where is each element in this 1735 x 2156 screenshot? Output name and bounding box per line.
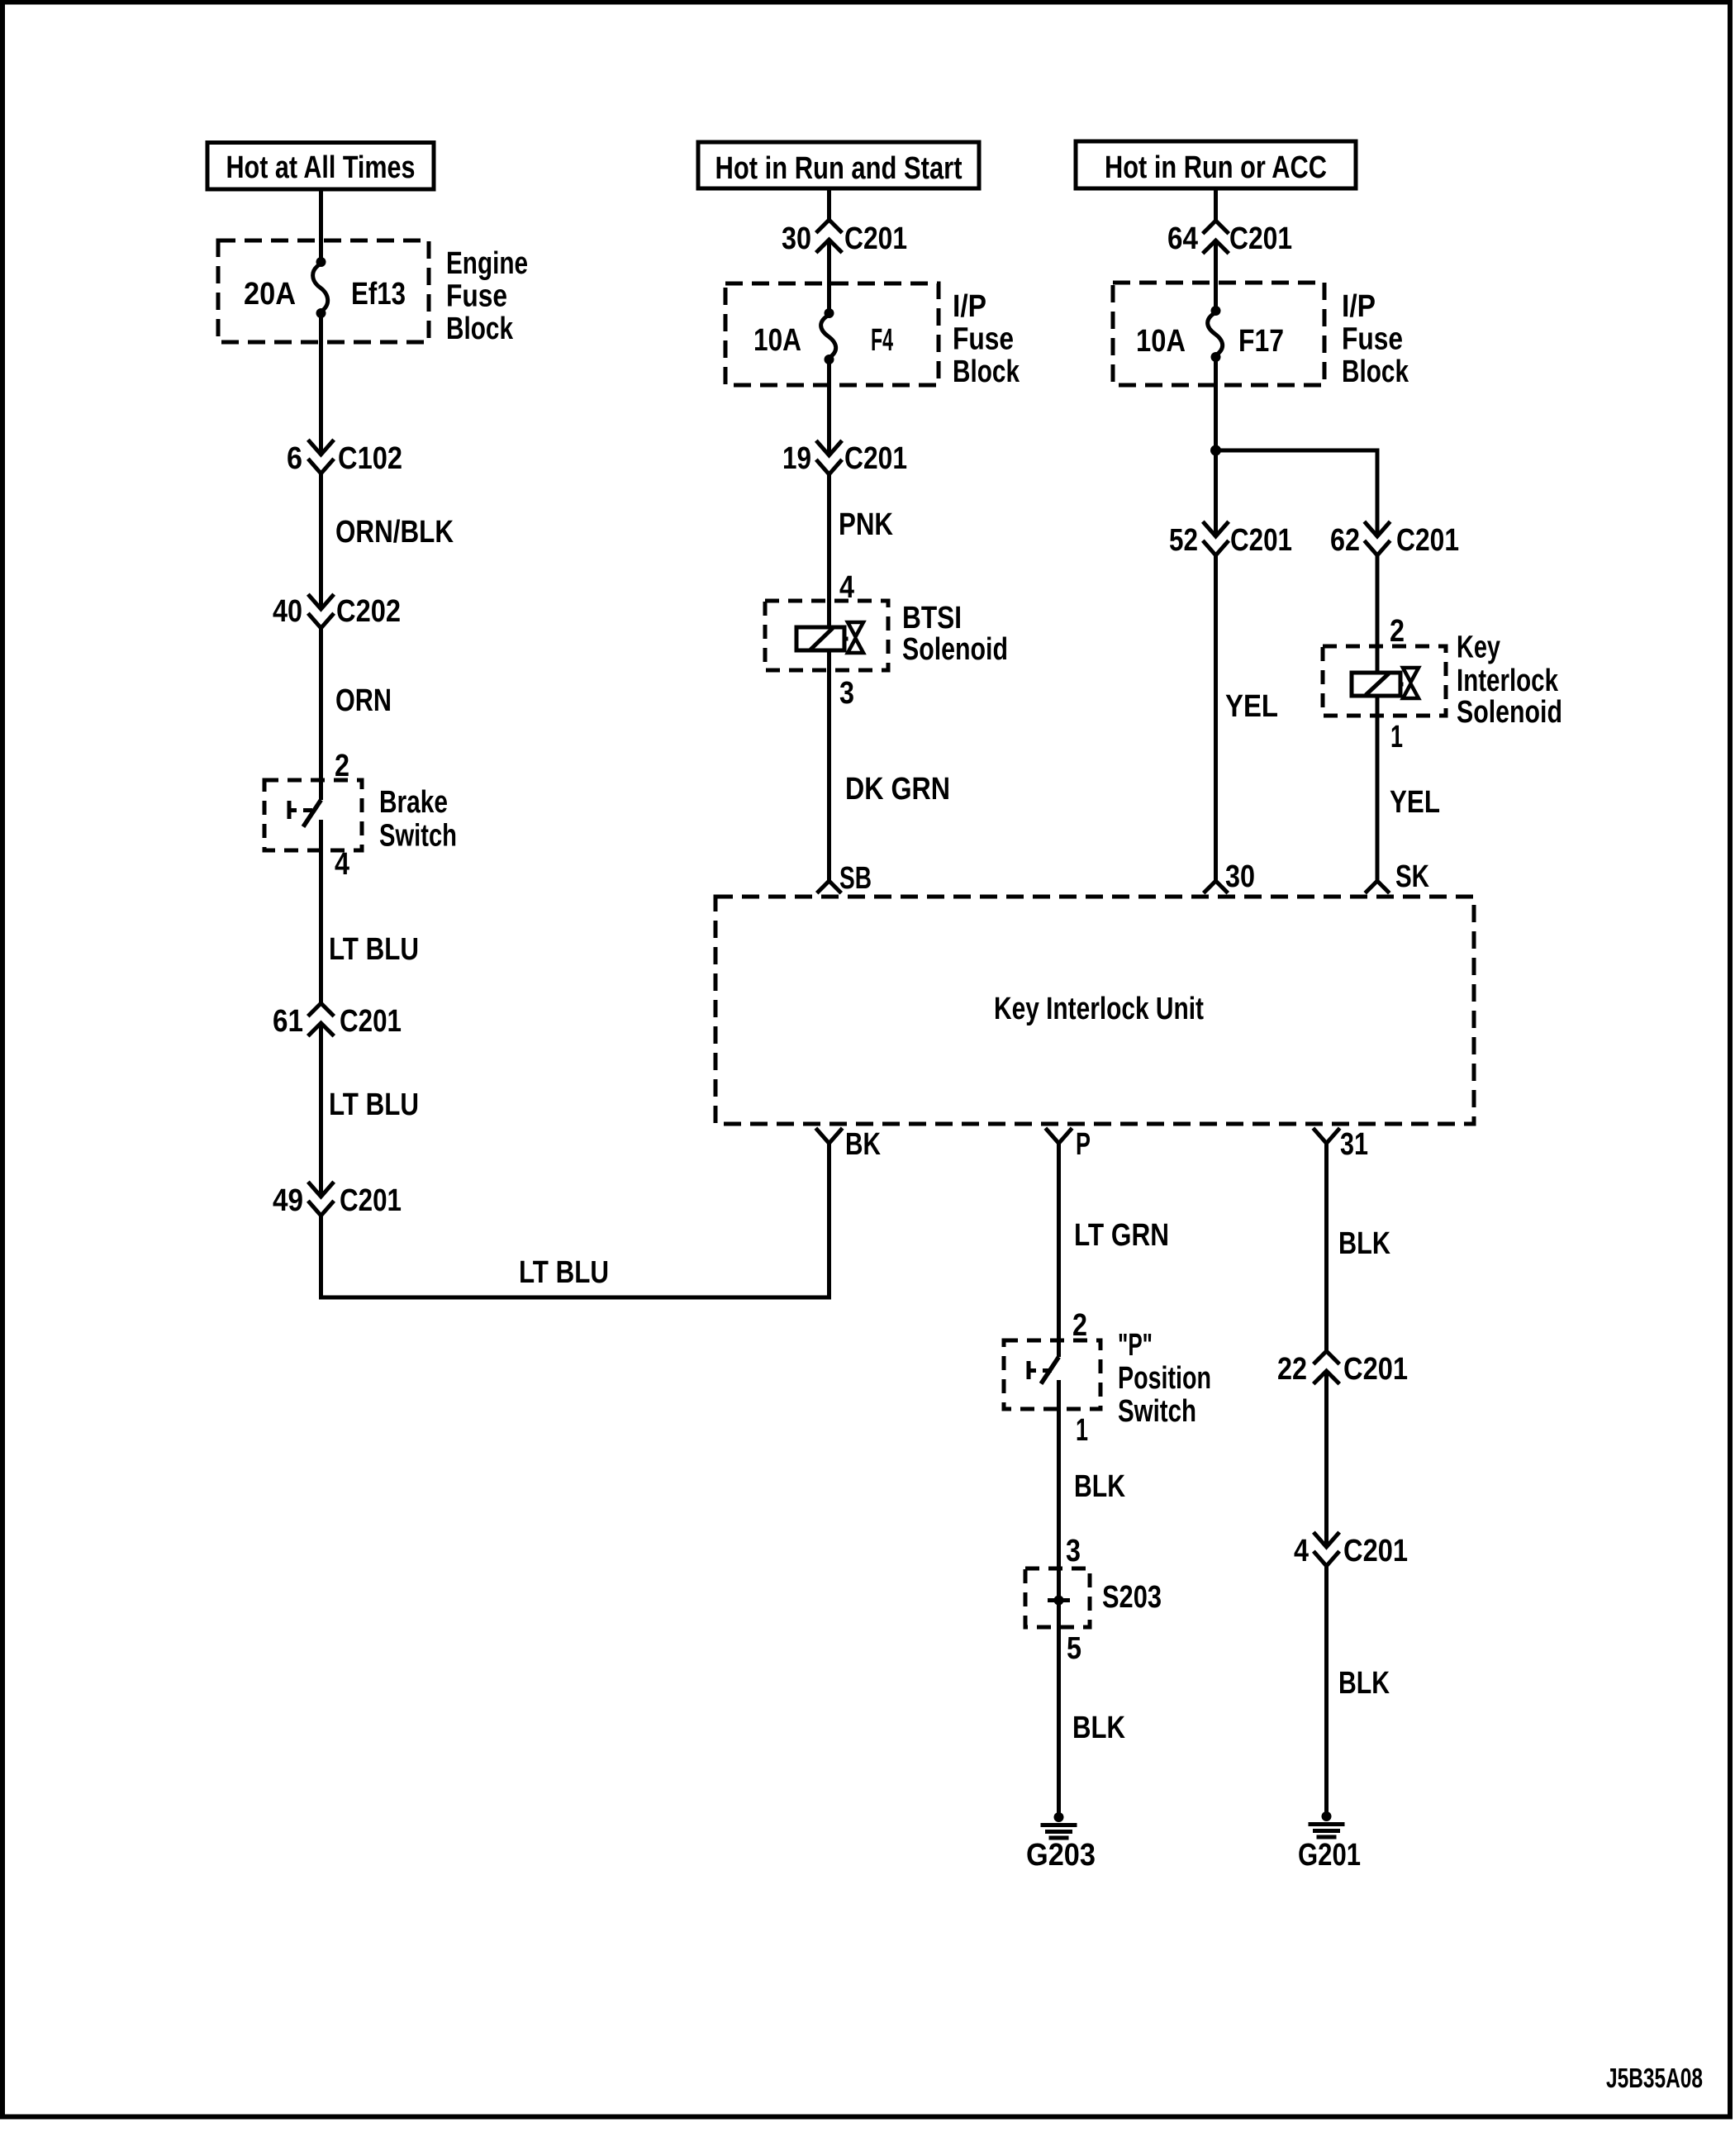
svg-text:4: 4 xyxy=(335,847,349,882)
wire LT BLU segment 1 xyxy=(319,820,323,1003)
svg-text:LT GRN: LT GRN xyxy=(1074,1218,1169,1253)
svg-text:62: 62 xyxy=(1330,523,1360,558)
wire LT GRN segment xyxy=(1057,1152,1061,1357)
svg-text:64: 64 xyxy=(1167,221,1198,256)
wire LT BLU run to BK xyxy=(321,1152,829,1297)
wire: header to fuse Ef13 xyxy=(319,189,323,264)
Brake Switch dashed box xyxy=(264,780,362,850)
svg-text:BLK: BLK xyxy=(1338,1666,1390,1701)
P position switch contacts xyxy=(1041,1357,1059,1384)
svg-text:SK: SK xyxy=(1395,859,1429,894)
svg-text:20A: 20A xyxy=(244,277,296,312)
Key Interlock Unit dashed box xyxy=(715,897,1474,1124)
svg-text:Hot at All Times: Hot at All Times xyxy=(226,150,416,185)
svg-text:C202: C202 xyxy=(336,594,401,629)
svg-text:40: 40 xyxy=(273,594,302,629)
svg-text:LT BLU: LT BLU xyxy=(519,1255,609,1290)
connector 64 C201 xyxy=(1205,221,1228,232)
svg-text:BK: BK xyxy=(845,1127,881,1162)
svg-text:3: 3 xyxy=(1066,1534,1081,1568)
svg-text:ORN: ORN xyxy=(335,683,392,718)
wire connector 64 to fuse F17 xyxy=(1214,240,1218,312)
svg-text:C201: C201 xyxy=(844,221,907,256)
svg-text:YEL: YEL xyxy=(1225,689,1278,724)
svg-text:52: 52 xyxy=(1169,523,1198,558)
header box: Hot at All Times xyxy=(207,143,434,190)
wire 62 to key solenoid xyxy=(1376,555,1380,673)
svg-text:BTSI: BTSI xyxy=(902,601,962,635)
I/P Fuse Block dashed box (F17) xyxy=(1113,283,1324,385)
svg-text:C201: C201 xyxy=(844,441,907,476)
BTSI solenoid coil and valve xyxy=(796,627,844,650)
svg-text:Block: Block xyxy=(1342,355,1409,389)
connector 52 C201 xyxy=(1205,523,1228,536)
ground G201 symbol xyxy=(1322,1811,1332,1821)
svg-text:3: 3 xyxy=(839,676,854,711)
svg-text:C201: C201 xyxy=(1343,1352,1408,1387)
svg-text:BLK: BLK xyxy=(1338,1226,1390,1261)
wire header to connector 64 xyxy=(1214,188,1218,221)
svg-text:DK GRN: DK GRN xyxy=(845,772,950,807)
svg-text:Block: Block xyxy=(446,312,514,346)
svg-text:YEL: YEL xyxy=(1390,785,1440,820)
svg-text:Key Interlock Unit: Key Interlock Unit xyxy=(994,992,1204,1026)
fuse Ef13 20A xyxy=(316,257,326,267)
svg-text:22: 22 xyxy=(1277,1352,1307,1387)
Key Interlock Solenoid dashed box xyxy=(1323,646,1446,716)
svg-text:30: 30 xyxy=(782,221,811,256)
svg-text:49: 49 xyxy=(273,1183,303,1218)
connector 22 C201 xyxy=(1315,1351,1338,1363)
svg-text:J5B35A08: J5B35A08 xyxy=(1606,2063,1703,2093)
connector 6 C102 xyxy=(310,441,333,455)
svg-text:"P": "P" xyxy=(1118,1328,1153,1363)
splice S203 dashed box xyxy=(1025,1568,1090,1627)
svg-text:Engine: Engine xyxy=(446,246,528,281)
svg-text:Brake: Brake xyxy=(379,785,448,820)
svg-text:LT BLU: LT BLU xyxy=(329,932,419,967)
svg-text:Fuse: Fuse xyxy=(953,322,1014,357)
wire YEL right segment xyxy=(1376,696,1380,869)
wire fuse F17 down to connector 52 xyxy=(1214,357,1218,536)
svg-text:31: 31 xyxy=(1340,1127,1368,1162)
svg-text:C201: C201 xyxy=(340,1183,402,1218)
wire YEL left segment xyxy=(1214,555,1218,869)
svg-text:Key: Key xyxy=(1457,631,1500,665)
svg-text:F4: F4 xyxy=(871,323,893,358)
brake switch contacts xyxy=(303,800,321,827)
svg-text:PNK: PNK xyxy=(839,507,893,542)
header box: Hot in Run and Start xyxy=(698,142,979,188)
svg-text:G201: G201 xyxy=(1298,1838,1361,1873)
svg-text:10A: 10A xyxy=(753,323,801,358)
Engine Fuse Block dashed box xyxy=(218,240,429,342)
ground G203 symbol xyxy=(1054,1812,1064,1822)
svg-text:Ef13: Ef13 xyxy=(351,277,406,312)
connector 49 C201 xyxy=(310,1183,333,1197)
splice S203 dot xyxy=(1054,1596,1064,1606)
svg-text:I/P: I/P xyxy=(953,289,986,324)
pin BK symbol xyxy=(817,1130,841,1144)
connector 4 C201 xyxy=(1315,1534,1338,1547)
svg-text:C201: C201 xyxy=(1343,1534,1408,1568)
svg-text:F17: F17 xyxy=(1238,324,1284,359)
wire BLK to ground G203 xyxy=(1057,1600,1061,1817)
svg-text:I/P: I/P xyxy=(1342,289,1376,324)
key interlock solenoid coil and valve xyxy=(1352,673,1400,696)
wire BLK segment (P col) xyxy=(1057,1380,1061,1600)
I/P Fuse Block dashed box (F4) xyxy=(725,283,939,385)
fuse F17 10A xyxy=(1211,306,1221,316)
svg-text:Fuse: Fuse xyxy=(1342,322,1403,357)
svg-text:Hot in Run and Start: Hot in Run and Start xyxy=(715,151,963,186)
svg-text:C201: C201 xyxy=(1396,523,1459,558)
pin 30 unit symbol xyxy=(1205,881,1227,892)
svg-text:Switch: Switch xyxy=(1118,1394,1196,1429)
svg-text:4: 4 xyxy=(1294,1534,1309,1568)
svg-text:61: 61 xyxy=(273,1004,303,1039)
fuse F4 10A xyxy=(825,308,834,318)
svg-text:Block: Block xyxy=(953,355,1020,389)
svg-text:2: 2 xyxy=(1390,614,1405,649)
svg-text:Position: Position xyxy=(1118,1361,1211,1396)
svg-text:5: 5 xyxy=(1067,1631,1081,1666)
svg-text:C201: C201 xyxy=(340,1004,402,1039)
wire branch to right column 62 xyxy=(1216,450,1378,536)
svg-text:Hot in Run or ACC: Hot in Run or ACC xyxy=(1105,150,1327,185)
svg-text:SB: SB xyxy=(839,861,872,896)
header box: Hot in Run or ACC xyxy=(1076,141,1356,188)
connector 40 C202 xyxy=(310,596,333,609)
svg-text:Fuse: Fuse xyxy=(446,279,507,314)
svg-text:BLK: BLK xyxy=(1072,1711,1125,1745)
wire LT BLU segment 2 xyxy=(319,1023,323,1197)
connector 62 C201 xyxy=(1366,523,1389,536)
svg-text:Switch: Switch xyxy=(379,819,457,854)
wire between 22 and 4 connectors xyxy=(1324,1371,1329,1547)
svg-text:Solenoid: Solenoid xyxy=(902,632,1008,667)
connector 61 C201 xyxy=(310,1003,333,1015)
connector 19 C201 xyxy=(818,442,841,455)
svg-text:10A: 10A xyxy=(1136,324,1186,359)
pin P symbol xyxy=(1047,1130,1071,1144)
wire DK GRN segment xyxy=(827,650,831,869)
junction node xyxy=(1210,445,1221,456)
svg-text:BLK: BLK xyxy=(1074,1469,1125,1504)
P Position Switch dashed box xyxy=(1004,1340,1100,1409)
svg-text:LT BLU: LT BLU xyxy=(329,1088,419,1122)
connector 30 C201 xyxy=(818,220,841,231)
svg-text:G203: G203 xyxy=(1026,1838,1096,1873)
svg-text:S203: S203 xyxy=(1102,1580,1162,1615)
svg-text:6: 6 xyxy=(287,441,302,476)
svg-text:C201: C201 xyxy=(1229,221,1292,256)
svg-text:ORN/BLK: ORN/BLK xyxy=(335,515,454,550)
svg-text:19: 19 xyxy=(782,441,811,476)
pin SB symbol xyxy=(819,881,840,892)
wire ORN/BLK segment xyxy=(319,474,323,609)
pin 31 symbol xyxy=(1314,1130,1338,1144)
wire PNK segment xyxy=(827,474,831,627)
svg-text:30: 30 xyxy=(1225,859,1255,894)
BTSI Solenoid dashed box xyxy=(765,601,888,670)
wire connector 30 to fuse F4 xyxy=(827,240,831,315)
pin SK symbol xyxy=(1367,881,1388,892)
svg-text:C201: C201 xyxy=(1230,523,1292,558)
svg-text:C102: C102 xyxy=(338,441,402,476)
wire BLK segment (31 col) xyxy=(1324,1152,1329,1351)
svg-text:1: 1 xyxy=(1390,720,1403,754)
wire: fuse to connector C102 xyxy=(319,313,323,455)
svg-text:Solenoid: Solenoid xyxy=(1457,695,1562,730)
svg-text:1: 1 xyxy=(1076,1413,1088,1448)
wire BLK to ground G201 xyxy=(1324,1566,1329,1816)
svg-text:2: 2 xyxy=(1072,1308,1087,1343)
svg-text:P: P xyxy=(1076,1127,1091,1162)
wire header to connector 30 xyxy=(827,188,831,220)
wire ORN segment xyxy=(319,628,323,800)
svg-text:Interlock: Interlock xyxy=(1457,664,1559,698)
wire fuse F4 to connector 19 xyxy=(827,359,831,455)
